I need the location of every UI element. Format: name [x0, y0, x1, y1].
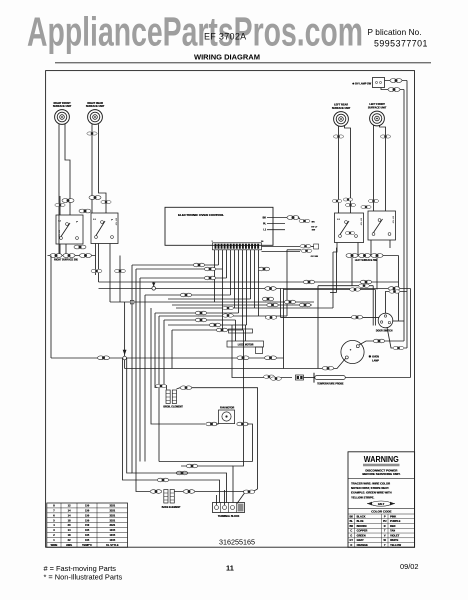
- door plunger bracket: [372, 286, 374, 326]
- svg-text:3321: 3321: [110, 504, 116, 508]
- svg-text:WHITE: WHITE: [390, 538, 399, 542]
- door lock cam bar: [229, 329, 253, 333]
- svg-text:105: 105: [85, 528, 90, 532]
- wire pin 11 drop: [254, 250, 256, 308]
- wire harness bus 4: [99, 281, 399, 283]
- svg-text:COPPER: COPPER: [357, 529, 368, 533]
- svg-text:BLACK: BLACK: [357, 514, 366, 518]
- svg-text:TEMPERATURE PROBE: TEMPERATURE PROBE: [317, 383, 344, 386]
- wire harness bus 12: [159, 315, 287, 317]
- wire control PL out: [267, 223, 285, 225]
- svg-text:EXAMPLE: GREEN WIRE WITH: EXAMPLE: GREEN WIRE WITH: [351, 491, 392, 495]
- wire center riser 2: [317, 286, 319, 369]
- wire bundle drop 1: [123, 358, 160, 480]
- surface unit left front: [368, 103, 387, 126]
- wire pin 1 drop: [214, 250, 216, 302]
- wire bundle drop 3: [132, 265, 227, 503]
- wire riser x287: [286, 250, 288, 316]
- wire bundle drop 8: [155, 313, 158, 388]
- svg-text:11: 11: [226, 564, 234, 573]
- svg-text:150: 150: [85, 504, 90, 508]
- lock motor M1: [227, 341, 264, 347]
- svg-text:V: V: [384, 533, 386, 537]
- svg-text:YELLOW: YELLOW: [390, 543, 401, 547]
- svg-text:150: 150: [85, 518, 90, 522]
- fan motor connectors: [206, 422, 217, 426]
- wire harness bus 9: [172, 304, 312, 306]
- svg-text:P: P: [384, 514, 386, 518]
- wire harness bus 7: [168, 298, 251, 300]
- svg-text:GREEN: GREEN: [357, 533, 366, 537]
- wire RF unit left lead: [58, 124, 60, 253]
- junction node B with arrow: [124, 302, 126, 356]
- wire fan loop: [216, 423, 219, 425]
- wire door switch top: [386, 292, 408, 314]
- wire LF unit left lead: [373, 125, 375, 211]
- wire pin 2 drop: [218, 250, 220, 265]
- svg-text:GY: GY: [350, 538, 354, 542]
- wire bundle drop 5: [139, 278, 141, 462]
- svg-text:316255165: 316255165: [219, 538, 255, 547]
- svg-text:OV LT: OV LT: [311, 226, 318, 228]
- connector inside C: [345, 231, 355, 234]
- svg-text:* = Non-Illustrated Parts: * = Non-Illustrated Parts: [44, 573, 123, 582]
- wire RR unit right lead: [99, 124, 107, 213]
- wire center riser 1: [283, 289, 285, 369]
- svg-text:COLOR CODE: COLOR CODE: [371, 510, 391, 514]
- svg-text:DOOR SWITCH: DOOR SWITCH: [376, 330, 393, 332]
- svg-text:BAKE ELEMENT: BAKE ELEMENT: [162, 506, 181, 509]
- surface unit left rear: [332, 104, 351, 127]
- connector row above switches: [62, 199, 74, 203]
- wire block feed left extension: [181, 465, 233, 467]
- svg-text:INF SW: INF SW: [58, 230, 60, 237]
- svg-text:BL: BL: [350, 519, 354, 523]
- probe connectors: [264, 375, 275, 378]
- svg-text:UL STYLE: UL STYLE: [106, 543, 119, 547]
- fan motor M2: [219, 410, 235, 424]
- connector on RR lead: [87, 132, 97, 135]
- connector below box B: [91, 269, 102, 272]
- svg-text:TERMINAL BLOCK: TERMINAL BLOCK: [218, 515, 240, 518]
- wire right bus 3: [410, 289, 412, 378]
- svg-text:BK: BK: [350, 514, 354, 518]
- surface switch B (right rear): [91, 213, 118, 244]
- wire riser x280.5: [280, 289, 282, 318]
- connector row above left switches: [332, 199, 342, 202]
- connector to block feed: [160, 480, 220, 503]
- wire pin 8 drop: [242, 250, 244, 330]
- surface switch A (right front): [56, 215, 83, 244]
- svg-text:3321: 3321: [110, 508, 116, 512]
- warning box: [348, 452, 415, 548]
- connector into block right: [253, 489, 258, 492]
- connector on LF lead: [380, 135, 390, 138]
- svg-text:AppliancePartsPros.com: AppliancePartsPros.com: [27, 9, 363, 55]
- svg-text:P blication No.: P blication No.: [368, 28, 422, 37]
- surface switch C (left rear): [335, 213, 364, 243]
- svg-text:ORANGE: ORANGE: [357, 543, 368, 547]
- wire lamp switch lower lead: [381, 88, 404, 90]
- wire box C bottom right: [357, 243, 359, 256]
- connector below switches AB: [74, 245, 86, 249]
- svg-text:WIRE: WIRE: [51, 543, 58, 547]
- wire harness bus 8: [110, 301, 314, 303]
- wire harness bus 14: [168, 324, 247, 326]
- diagram border frame: [46, 71, 415, 548]
- svg-text:YELLOW STRIPE.: YELLOW STRIPE.: [351, 495, 374, 499]
- wire plunger feeds: [318, 285, 373, 287]
- oven lamp DS1: [341, 340, 364, 363]
- wire right bus 1: [403, 90, 405, 342]
- wire pin 6 drop: [234, 250, 236, 308]
- wire row drop 1: [351, 258, 353, 286]
- svg-text:GN-Y: GN-Y: [378, 502, 385, 506]
- wire pin 3 drop: [222, 250, 224, 330]
- wire lamp switch to right bus: [385, 80, 408, 82]
- wire pin 4 drop: [226, 250, 228, 278]
- wire long left drop: [50, 256, 52, 359]
- svg-text:INF SW: INF SW: [392, 216, 394, 223]
- svg-text:TAN: TAN: [390, 529, 395, 533]
- wire bundle drop 2: [127, 358, 132, 473]
- svg-text:SURFACE UNIT: SURFACE UNIT: [332, 107, 351, 110]
- wire box B bottom legs: [95, 244, 97, 276]
- wire loop back: [287, 249, 301, 251]
- svg-text:LEFT SURFACE SW.: LEFT SURFACE SW.: [355, 259, 378, 262]
- wire bake right lead: [174, 491, 244, 493]
- svg-text:OV SW: OV SW: [311, 256, 319, 258]
- wire riser x172: [171, 330, 173, 369]
- svg-text:VIOLET: VIOLET: [390, 533, 400, 537]
- wire door switch right lead: [392, 320, 404, 322]
- temperature probe B1: [313, 373, 315, 383]
- svg-text:BROWN: BROWN: [357, 524, 367, 528]
- svg-text:ELECTRONIC OVEN CONTROL: ELECTRONIC OVEN CONTROL: [178, 213, 224, 217]
- svg-text:RIGHT SURFACE SW.: RIGHT SURFACE SW.: [54, 259, 78, 262]
- svg-text:09/02: 09/02: [400, 562, 419, 571]
- svg-text:BK: BK: [263, 216, 267, 219]
- svg-text:3321: 3321: [110, 518, 116, 522]
- svg-text:R: R: [384, 524, 386, 528]
- wire bundle drop 4: [136, 269, 150, 492]
- svg-text:BLUE: BLUE: [357, 519, 364, 523]
- wire block feeds: [216, 495, 218, 505]
- wire LR unit left lead: [338, 126, 340, 213]
- wire harness bus 10: [176, 307, 333, 309]
- svg-text:TEMP°C: TEMP°C: [82, 543, 92, 547]
- wire box A feed: [59, 196, 61, 215]
- svg-text:INF SW: INF SW: [115, 218, 117, 225]
- wire harness bus 5: [99, 288, 411, 290]
- svg-text:1015: 1015: [110, 533, 116, 537]
- wire bundle drop 9: [158, 316, 160, 462]
- svg-text:C: C: [350, 529, 352, 533]
- wire bundle drop 10: [164, 320, 167, 390]
- connector on LR lead: [333, 135, 343, 138]
- wire box D bottom legs: [370, 240, 372, 256]
- svg-text:3321: 3321: [110, 523, 116, 527]
- svg-text:WARNING: WARNING: [364, 455, 399, 464]
- svg-text:WIRING DIAGRAM: WIRING DIAGRAM: [194, 53, 260, 62]
- svg-text:LAMP: LAMP: [372, 359, 379, 362]
- svg-text:SURFACE UNIT: SURFACE UNIT: [86, 105, 105, 108]
- svg-text:✱ OV LAMP SW: ✱ OV LAMP SW: [352, 81, 371, 85]
- wire LF unit right lead: [380, 125, 386, 211]
- svg-text:NOTED FIRST, STRIPE NEXT.: NOTED FIRST, STRIPE NEXT.: [351, 486, 389, 490]
- connector bake left: [150, 490, 161, 494]
- wire pin 9 drop: [246, 250, 248, 325]
- svg-text:1015: 1015: [110, 538, 116, 542]
- svg-text:BK: BK: [312, 222, 316, 224]
- wire broil right lead: [177, 388, 258, 489]
- wire pin 5 drop: [230, 250, 232, 295]
- terminal block TB1: [213, 503, 245, 518]
- wire lamp upper lead: [359, 341, 404, 345]
- wire row to right bus: [398, 256, 400, 322]
- wire pin 7 drop: [238, 250, 240, 313]
- wire right bus 2: [406, 81, 408, 349]
- svg-text:O: O: [350, 543, 352, 547]
- wire gauge table: [47, 503, 128, 547]
- electronic oven control U1: [165, 207, 273, 245]
- wire riser x336.5: [336, 248, 339, 293]
- svg-text:3321: 3321: [110, 513, 116, 517]
- wire LR unit right lead: [345, 126, 351, 213]
- probe plug body: [296, 375, 304, 380]
- right surface connector row: [48, 255, 96, 257]
- svg-text:105: 105: [85, 538, 90, 542]
- surface unit right rear: [86, 102, 105, 125]
- wire pin 10 drop: [250, 250, 252, 299]
- wire RR unit left lead: [91, 124, 93, 213]
- svg-text:FAN MOTOR: FAN MOTOR: [220, 406, 235, 409]
- junction node A with arrow: [153, 282, 155, 286]
- splice square on bus: [130, 300, 134, 304]
- connector on BK wire: [287, 216, 299, 220]
- wire junction down leg: [124, 360, 126, 369]
- svg-text:GRAY: GRAY: [357, 538, 364, 542]
- wire bundle drop 6: [144, 295, 146, 462]
- door switch S2: [378, 313, 393, 328]
- spade terminal block: [314, 244, 319, 249]
- wires from strip right: [262, 246, 301, 248]
- bake element R1: [162, 490, 182, 509]
- svg-text:BR: BR: [350, 524, 354, 528]
- wire harness bus 2: [136, 268, 223, 270]
- wire control BK out: [267, 217, 288, 219]
- svg-text:SURFACE UNIT: SURFACE UNIT: [53, 105, 72, 108]
- lock motor legs: [235, 320, 237, 341]
- svg-text:RED: RED: [390, 524, 396, 528]
- surface unit right front: [53, 102, 72, 125]
- connector pair left of lock: [223, 306, 234, 309]
- wire RF unit right lead: [65, 124, 70, 215]
- header rule: [55, 62, 431, 64]
- svg-text:5995377701: 5995377701: [374, 38, 428, 48]
- wire drop with connector: [119, 256, 121, 303]
- left surface connector row: [347, 255, 399, 257]
- broil element R2: [163, 390, 183, 409]
- oven lamp switch SW1: [373, 78, 385, 88]
- wire control L1 out: [267, 229, 285, 231]
- svg-text:PL: PL: [263, 222, 267, 225]
- svg-text:SURFACE UNIT: SURFACE UNIT: [368, 107, 387, 110]
- wire box C bottom left: [333, 243, 337, 253]
- svg-text:1015: 1015: [110, 528, 116, 532]
- svg-text:150: 150: [85, 508, 90, 512]
- connector between switch feeds: [79, 209, 91, 213]
- wire box A bottom: [59, 244, 61, 256]
- wire main neutral run: [51, 357, 123, 359]
- svg-text:PINK: PINK: [390, 514, 396, 518]
- svg-text:OVEN: OVEN: [372, 356, 379, 359]
- svg-text:150: 150: [85, 513, 90, 517]
- wire bottom run: [159, 461, 253, 463]
- wire block feed right: [233, 330, 244, 503]
- wire harness bus 11: [155, 312, 239, 314]
- wire harness bus 13: [164, 319, 236, 321]
- svg-text:BROIL ELEMENT: BROIL ELEMENT: [163, 406, 183, 409]
- wire door switch left lead: [281, 316, 379, 318]
- pin connector strip P1: [213, 243, 262, 250]
- surface switch D (left front): [368, 211, 396, 240]
- wire harness bus 6: [145, 294, 231, 296]
- svg-text:TRACER WIRE: WIRE COLOR: TRACER WIRE: WIRE COLOR: [351, 482, 390, 486]
- wire riser x110: [109, 244, 111, 303]
- svg-text:BEFORE SERVICING UNIT.: BEFORE SERVICING UNIT.: [362, 472, 400, 476]
- wire riser x333: [332, 252, 334, 308]
- wire lamp lower lead: [125, 359, 346, 369]
- wire probe tail: [345, 377, 410, 379]
- wire harness bus 3: [140, 277, 227, 279]
- wire harness bus 15: [172, 329, 244, 331]
- wire door switch bottom: [387, 327, 407, 348]
- svg-text:105: 105: [85, 533, 90, 537]
- connector broil left: [156, 384, 167, 387]
- connector pair staggered: [298, 218, 300, 220]
- wire box A bottom 2: [65, 244, 67, 256]
- wire bundle drop 7: [151, 308, 205, 424]
- wire harness bus 1: [132, 264, 219, 266]
- svg-text:LOCK MOTOR: LOCK MOTOR: [238, 344, 254, 346]
- svg-text:150: 150: [85, 523, 90, 527]
- svg-text:AWG: AWG: [66, 543, 72, 547]
- svg-text:INF SW: INF SW: [360, 218, 362, 225]
- svg-text:G: G: [350, 533, 352, 537]
- wire pin 12 drop: [258, 250, 260, 316]
- svg-text:Y: Y: [384, 543, 386, 547]
- wire probe feed: [232, 325, 292, 378]
- svg-text:PU: PU: [383, 519, 387, 523]
- wire row drop 2: [376, 258, 378, 290]
- svg-text:EF 3702A: EF 3702A: [204, 32, 246, 42]
- svg-text:PURPLE: PURPLE: [390, 519, 401, 523]
